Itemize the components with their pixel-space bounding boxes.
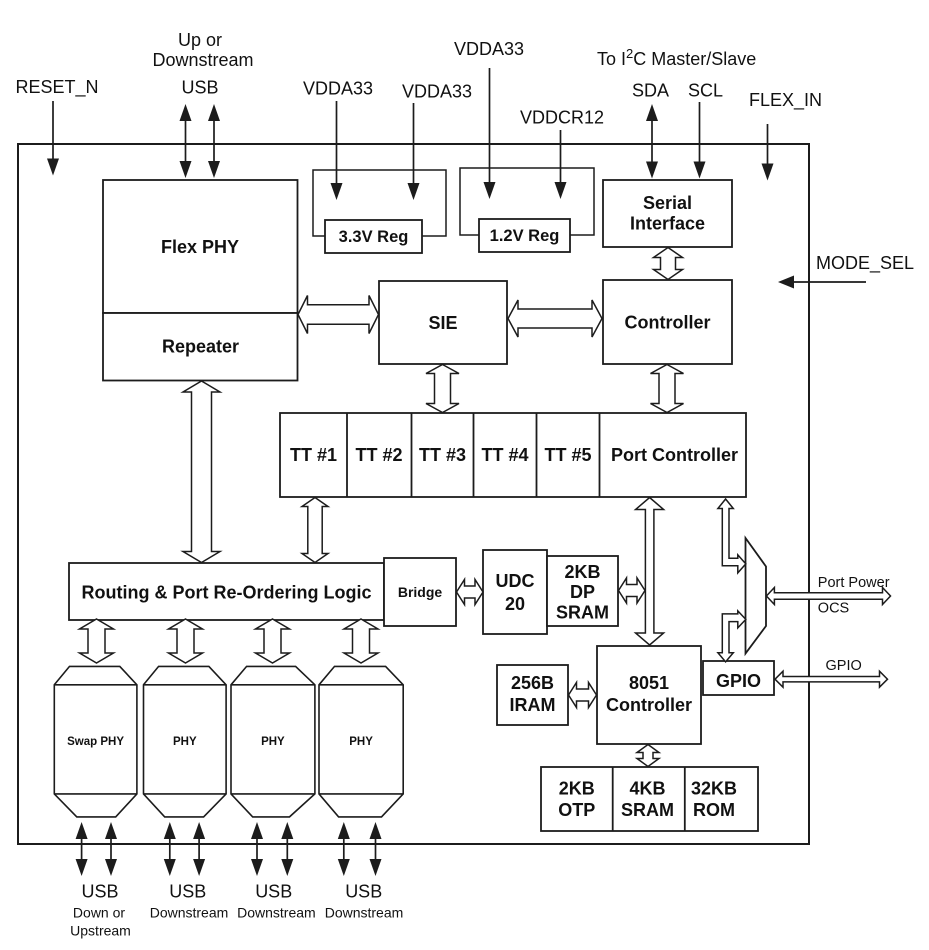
signal arrow FLEX_IN: [762, 124, 774, 181]
signal arrow SDA: [646, 104, 658, 179]
svg-text:8051: 8051: [629, 673, 669, 693]
block PHY 3: [231, 666, 315, 817]
svg-text:RESET_N: RESET_N: [15, 77, 98, 98]
svg-text:Downstream: Downstream: [237, 905, 316, 921]
bus arrow Routing-PHY4: [344, 619, 378, 663]
block Flex PHY: [103, 180, 298, 313]
svg-text:USB: USB: [255, 882, 292, 902]
bus arrow Port Controller-mux: [718, 499, 746, 573]
svg-text:TT #2: TT #2: [355, 445, 402, 465]
svg-text:USB: USB: [181, 78, 218, 98]
svg-text:USB: USB: [345, 882, 382, 902]
block Serial Interface: [603, 180, 732, 247]
bus arrow Bridge-UDC: [457, 580, 484, 605]
svg-text:VDDCR12: VDDCR12: [520, 108, 604, 128]
svg-text:Downstream: Downstream: [152, 50, 253, 70]
svg-text:2KB: 2KB: [564, 562, 600, 582]
bus arrow 8051-memory row: [637, 745, 659, 767]
svg-text:Bridge: Bridge: [398, 584, 443, 600]
block 1.2V Reg: [479, 219, 570, 252]
bus arrow SIE-TT3: [426, 365, 459, 413]
signal arrow VDDA33 first: [331, 101, 343, 200]
divider TT2-TT3: [411, 413, 413, 497]
svg-text:GPIO: GPIO: [716, 671, 761, 691]
svg-text:32KB: 32KB: [691, 779, 737, 799]
svg-text:SRAM: SRAM: [556, 603, 609, 623]
svg-text:OCS: OCS: [818, 601, 849, 617]
svg-text:Port Controller: Port Controller: [611, 445, 738, 465]
svg-text:Repeater: Repeater: [162, 337, 239, 357]
signal arrow VDDA33 top: [484, 68, 496, 199]
svg-text:FLEX_IN: FLEX_IN: [749, 90, 822, 111]
bus arrow Routing-PHY3: [256, 619, 290, 663]
svg-text:TT #1: TT #1: [290, 445, 337, 465]
block 2KB DP SRAM: [547, 556, 618, 626]
bus arrow SIE-Controller: [508, 300, 602, 337]
block Controller: [603, 280, 732, 364]
svg-text:Serial: Serial: [643, 193, 692, 213]
bus arrow Repeater-Routing: [183, 381, 220, 563]
svg-text:TT #4: TT #4: [481, 445, 528, 465]
svg-text:SRAM: SRAM: [621, 800, 674, 820]
svg-text:Up or: Up or: [178, 30, 222, 50]
block 256B IRAM: [497, 665, 568, 725]
divider OTP-SRAM: [612, 767, 614, 831]
svg-text:256B: 256B: [511, 673, 554, 693]
bus arrow Port Controller-8051: [636, 498, 664, 646]
svg-text:Flex PHY: Flex PHY: [161, 237, 239, 257]
svg-text:Upstream: Upstream: [70, 923, 131, 939]
svg-text:USB: USB: [81, 882, 118, 902]
block UDC 20: [483, 550, 547, 634]
svg-text:SIE: SIE: [428, 313, 457, 333]
bus arrow Routing-PHY2: [169, 619, 203, 663]
divider TT4-TT5: [536, 413, 538, 497]
divider TT5-PortController: [599, 413, 601, 497]
block TT row frame: [280, 413, 746, 497]
svg-text:1.2V Reg: 1.2V Reg: [490, 227, 560, 245]
svg-text:Downstream: Downstream: [150, 905, 229, 921]
svg-text:MODE_SEL: MODE_SEL: [816, 253, 914, 274]
divider TT1-TT2: [346, 413, 348, 497]
wire USB upstream pair: [180, 104, 192, 178]
svg-text:20: 20: [505, 594, 525, 614]
usb port arrows 4: [338, 822, 350, 876]
svg-text:GPIO: GPIO: [826, 658, 862, 674]
svg-text:USB: USB: [169, 882, 206, 902]
svg-text:3.3V Reg: 3.3V Reg: [339, 228, 409, 246]
bus arrow Routing-Swap PHY: [80, 619, 114, 663]
svg-text:Controller: Controller: [624, 313, 710, 333]
regulator enclosure 1.2V: [460, 168, 594, 235]
svg-text:IRAM: IRAM: [510, 695, 556, 715]
bus arrow Flex PHY-SIE: [298, 296, 379, 334]
block 8051 Controller: [597, 646, 701, 744]
svg-text:To I2C Master/Slave: To I2C Master/Slave: [597, 46, 756, 69]
svg-text:Downstream: Downstream: [325, 905, 404, 921]
block PHY 2: [144, 666, 227, 817]
svg-text:Controller: Controller: [606, 695, 692, 715]
signal arrow SCL: [694, 102, 706, 179]
svg-text:4KB: 4KB: [629, 779, 665, 799]
svg-text:UDC: UDC: [496, 571, 535, 591]
svg-text:VDDA33: VDDA33: [454, 39, 524, 59]
io arrow Port Power OCS: [766, 588, 890, 605]
svg-text:TT #3: TT #3: [419, 445, 466, 465]
bus arrow Serial Interface-Controller: [654, 248, 683, 280]
usb port arrows 3: [251, 822, 263, 876]
bus arrow TT1-Routing: [302, 498, 328, 563]
svg-text:SCL: SCL: [688, 81, 723, 101]
svg-text:PHY: PHY: [261, 736, 285, 748]
svg-text:PHY: PHY: [173, 736, 197, 748]
bus arrow Controller-Port Controller: [651, 365, 684, 413]
block PHY 4: [319, 666, 403, 817]
svg-text:Routing & Port Re-Ordering Log: Routing & Port Re-Ordering Logic: [82, 583, 372, 603]
block SIE: [379, 281, 507, 364]
bus arrow mux-GPIO: [718, 611, 746, 662]
signal arrow VDDCR12: [555, 130, 567, 199]
signal arrow RESET_N: [47, 101, 59, 176]
signal arrow VDDA33 second: [408, 103, 420, 200]
svg-text:Port Power: Port Power: [818, 575, 890, 591]
svg-text:PHY: PHY: [349, 736, 373, 748]
regulator enclosure 3.3V: [313, 170, 446, 236]
bus arrow DP SRAM-8051 bus: [619, 578, 646, 603]
block Routing & Port Re-Ordering Logic: [69, 563, 384, 620]
svg-text:DP: DP: [570, 582, 595, 602]
io arrow GPIO: [775, 671, 888, 687]
block Swap PHY: [54, 666, 137, 817]
divider TT3-TT4: [473, 413, 475, 497]
svg-text:VDDA33: VDDA33: [402, 82, 472, 102]
svg-text:Swap PHY: Swap PHY: [67, 736, 124, 748]
svg-text:Down or: Down or: [73, 905, 125, 921]
svg-text:2KB: 2KB: [559, 779, 595, 799]
mux port power select: [746, 538, 767, 654]
svg-text:VDDA33: VDDA33: [303, 79, 373, 99]
svg-text:Interface: Interface: [630, 214, 705, 234]
svg-text:SDA: SDA: [632, 81, 669, 101]
block Repeater: [103, 313, 298, 381]
usb port arrows 2: [164, 822, 176, 876]
chip boundary: [18, 144, 809, 844]
signal arrow MODE_SEL: [792, 281, 866, 283]
usb port arrows 1: [76, 822, 88, 876]
block memory row frame: [541, 767, 758, 831]
block 3.3V Reg: [325, 220, 422, 253]
block GPIO: [703, 661, 774, 695]
svg-text:OTP: OTP: [558, 800, 595, 820]
svg-text:TT #5: TT #5: [544, 445, 591, 465]
bus arrow IRAM-8051: [569, 683, 597, 708]
svg-text:ROM: ROM: [693, 800, 735, 820]
block Bridge: [384, 558, 456, 626]
divider SRAM-ROM: [684, 767, 686, 831]
